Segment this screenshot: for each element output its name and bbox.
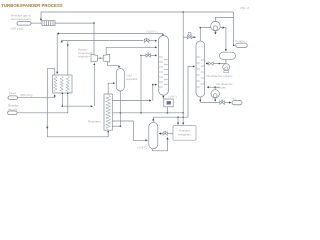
wire: vertical x=141	[140, 55, 142, 112]
wire: recycle pass down-feed from line y=40.6	[67, 41, 69, 47]
wire: expander outlet to cold separator	[108, 62, 120, 68]
svg-text:recompression: recompression	[11, 17, 31, 21]
wire: sales gas line	[234, 12, 235, 45]
product flag	[232, 100, 242, 104]
svg-text:refrigerant: refrigerant	[178, 132, 191, 136]
wire: top line y=12	[41, 12, 234, 20]
wire: overhead line through condenser	[200, 27, 210, 29]
svg-text:separator: separator	[126, 77, 138, 81]
wire: vessel to propane box with valve	[160, 133, 162, 135]
wire: separator JT line to demethanizer	[140, 55, 142, 57]
shaft	[98, 57, 104, 59]
node: booster discharge corner	[93, 22, 95, 24]
to sales flag	[236, 43, 248, 47]
wire: booster suction	[61, 93, 63, 106]
wire: line y=47.3 expander outlet to demethanizer	[106, 46, 156, 48]
wire: recycle line	[17, 93, 68, 113]
wire: de-ethanizer overhead riser	[199, 28, 201, 41]
wire: line y=40.6 exchanger to demethanizer valve line	[61, 41, 63, 43]
svg-text:(-150 F.): (-150 F.)	[146, 29, 156, 33]
reflux pump	[223, 64, 230, 71]
wire: expander top riser	[105, 47, 107, 54]
wire: residue line y=23	[31, 22, 42, 24]
compressor (booster) trapezoid	[91, 54, 98, 62]
bottom product vessel	[149, 122, 158, 149]
reflux drum	[220, 52, 236, 59]
wire: demethanizer top riser	[162, 34, 164, 36]
wire: condenser bottom stub	[214, 31, 216, 34]
wire: vessel top riser and line to de-ethanizer feed	[152, 119, 154, 123]
J-T expansion box	[162, 95, 164, 99]
wire: reboiler return	[207, 86, 219, 88]
wire: condenser vapor stub to sales line	[215, 17, 233, 21]
valve V4 (bottoms)	[220, 100, 225, 104]
svg-text:Reboilers: Reboilers	[88, 119, 101, 123]
heat exchanger A (residue gas/gas, striped)	[42, 21, 55, 26]
wire: booster discharge riser	[93, 23, 95, 54]
wire: demethanizer overhead line y=33.5	[57, 33, 163, 35]
svg-text:TURBOEXPANDER PROCESS: TURBOEXPANDER PROCESS	[1, 3, 63, 9]
wire: coil return 1 to demethanizer	[112, 100, 151, 102]
wire: coil line 3 to bottom vessel	[112, 121, 147, 140]
svg-text:FIG. 2: FIG. 2	[241, 6, 250, 10]
valve V3 (reflux)	[209, 62, 214, 65]
wire: de-ethanizer bottoms	[199, 97, 201, 102]
demethanizer internals	[159, 57, 168, 87]
residue recycle inlet flag	[8, 111, 18, 115]
heat exchanger C (demethanizer reboilers coil)	[104, 94, 112, 130]
svg-text:De-ethanizer column: De-ethanizer column	[207, 74, 233, 78]
condenser circle	[211, 21, 221, 31]
wire: vessel bottom U-drain	[152, 138, 167, 151]
propane refrigerant box	[173, 126, 196, 141]
svg-text:(950 psig): (950 psig)	[20, 93, 33, 97]
valve V5	[163, 131, 167, 135]
svg-text:To sales: To sales	[235, 39, 245, 43]
wire: coil exchanger to separator inlet	[108, 83, 114, 94]
wire: feed line	[18, 95, 55, 98]
svg-text:Feed: Feed	[9, 91, 16, 95]
wire: separator bottoms down-comer	[119, 91, 121, 126]
residue outlet flag	[17, 22, 31, 26]
reboiler circle	[211, 90, 219, 98]
svg-text:(-116 F.): (-116 F.)	[137, 145, 147, 149]
wire: reflux line with valve	[225, 59, 227, 63]
wire: long bottoms line y=112.8	[112, 112, 183, 114]
svg-text:expander: expander	[78, 54, 90, 58]
wire: feed pass top hook and down-comer	[47, 69, 54, 129]
demethanizer column	[159, 36, 169, 96]
valve V2 (J-T)	[146, 53, 151, 57]
wire: drops into propane box	[177, 117, 179, 124]
heat exchanger B (gas/gas, plate-fin with coils)	[53, 75, 73, 93]
wire: long vertical from top line to propane box	[182, 11, 184, 13]
cold separator vessel	[116, 69, 124, 92]
node: coil bottom junction	[107, 131, 109, 133]
valve V1	[144, 38, 149, 42]
de-ethanizer internals	[196, 57, 204, 87]
expander trapezoid	[103, 54, 110, 62]
de-ethanizer column	[196, 41, 205, 97]
feed inlet flag	[8, 96, 18, 100]
control valve to de-ethanizer top	[183, 36, 187, 38]
svg-text:(150 psig): (150 psig)	[11, 26, 24, 30]
svg-text:(-148 F.): (-148 F.)	[168, 96, 177, 99]
svg-text:NGL: NGL	[232, 97, 238, 101]
